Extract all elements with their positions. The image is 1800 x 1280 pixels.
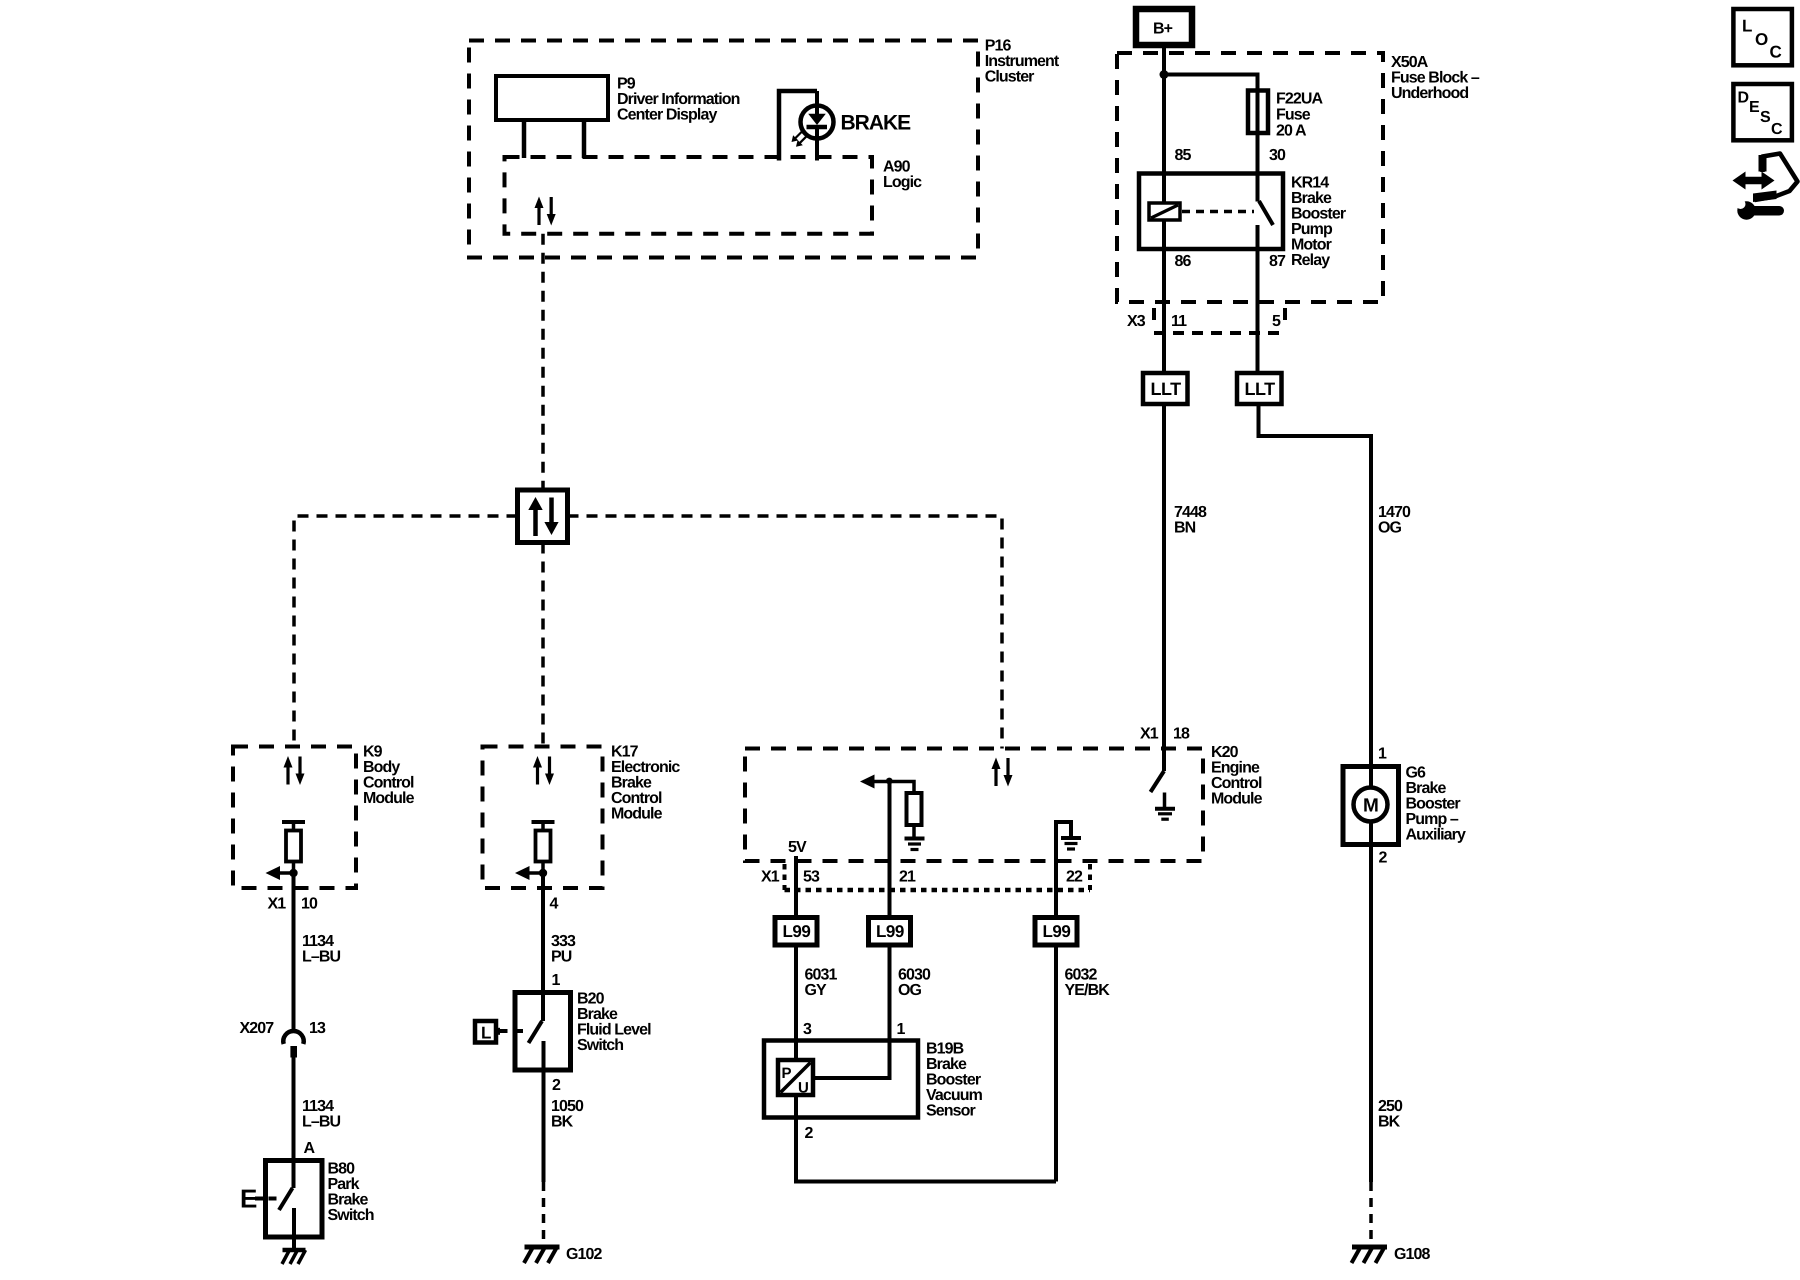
svg-text:Booster: Booster xyxy=(926,1072,981,1089)
fuse F22UA 20A xyxy=(1248,91,1268,134)
svg-text:P9: P9 xyxy=(617,75,636,92)
wire 250 BK xyxy=(1369,822,1373,1183)
svg-text:Underhood: Underhood xyxy=(1391,85,1468,102)
svg-text:Relay: Relay xyxy=(1291,252,1330,269)
motor M symbol xyxy=(1354,788,1388,822)
svg-text:Cluster: Cluster xyxy=(985,69,1034,86)
wire P9 left leg xyxy=(522,120,527,158)
svg-text:L: L xyxy=(1742,17,1752,36)
svg-text:10: 10 xyxy=(301,896,318,913)
serial data arrows K17 xyxy=(533,756,554,785)
svg-text:BN: BN xyxy=(1174,520,1196,537)
svg-text:B80: B80 xyxy=(328,1161,356,1178)
svg-text:2: 2 xyxy=(1379,850,1388,867)
svg-text:X207: X207 xyxy=(240,1020,275,1037)
svg-text:1050: 1050 xyxy=(551,1098,584,1115)
wire serial data A90 to gateway (dashed) xyxy=(541,234,545,490)
wire B+ to relay coil xyxy=(1162,45,1166,203)
splice L99 right xyxy=(1035,918,1077,946)
svg-text:Booster: Booster xyxy=(1291,206,1346,223)
svg-text:X1: X1 xyxy=(268,896,287,913)
LOC legend box xyxy=(1733,9,1792,65)
svg-text:Fuse Block –: Fuse Block – xyxy=(1391,70,1480,87)
svg-text:X3: X3 xyxy=(1127,313,1146,330)
svg-text:BRAKE: BRAKE xyxy=(841,112,912,135)
svg-text:O: O xyxy=(1755,30,1768,49)
connector X3 strip xyxy=(1152,308,1156,320)
svg-text:L: L xyxy=(481,1024,491,1043)
resistor pull-up xyxy=(907,793,922,825)
K20 internal switch to ground (pin 18) xyxy=(1151,771,1165,792)
svg-text:L–BU: L–BU xyxy=(302,1114,341,1131)
wire resistor to node xyxy=(541,862,545,874)
svg-text:18: 18 xyxy=(1173,726,1190,743)
wire 6030 OG xyxy=(813,945,890,1078)
svg-text:Module: Module xyxy=(1211,791,1263,808)
svg-text:Sensor: Sensor xyxy=(926,1103,976,1120)
svg-text:A: A xyxy=(304,1140,316,1157)
svg-text:20 A: 20 A xyxy=(1276,123,1307,140)
svg-text:X50A: X50A xyxy=(1391,54,1429,71)
svg-text:13: 13 xyxy=(309,1020,326,1037)
svg-text:87: 87 xyxy=(1269,253,1286,270)
svg-text:1470: 1470 xyxy=(1378,504,1411,521)
svg-text:Fluid Level: Fluid Level xyxy=(577,1022,651,1039)
svg-text:B19B: B19B xyxy=(926,1041,964,1058)
splice L99 left xyxy=(775,918,817,946)
serial data arrows K9 xyxy=(284,756,305,785)
svg-text:1134: 1134 xyxy=(302,1098,334,1115)
svg-text:6032: 6032 xyxy=(1065,967,1098,984)
svg-text:L–BU: L–BU xyxy=(302,949,341,966)
svg-text:22: 22 xyxy=(1066,869,1083,886)
splice L99 middle xyxy=(869,918,911,946)
svg-text:Fuse: Fuse xyxy=(1276,107,1311,124)
K17 input termination bar xyxy=(532,820,555,824)
svg-text:U: U xyxy=(798,1080,808,1097)
wire junction to fuse xyxy=(1164,75,1258,174)
node junction xyxy=(1160,70,1169,79)
svg-text:Pump –: Pump – xyxy=(1406,811,1459,828)
K9 input termination bar xyxy=(282,820,305,824)
svg-text:1: 1 xyxy=(897,1021,906,1038)
serial data arrows gateway xyxy=(528,497,558,536)
svg-text:Brake: Brake xyxy=(1406,780,1447,797)
wire dashed to G108 xyxy=(1369,1182,1373,1243)
wire 6031 GY xyxy=(794,945,798,1060)
svg-text:BK: BK xyxy=(551,1114,574,1131)
svg-text:X1: X1 xyxy=(761,869,780,886)
svg-text:30: 30 xyxy=(1269,147,1286,164)
svg-text:2: 2 xyxy=(805,1125,814,1142)
ground below B80 xyxy=(282,1250,306,1264)
svg-text:5: 5 xyxy=(1272,313,1281,330)
svg-text:Brake: Brake xyxy=(328,1192,369,1209)
K20 ground return pin 22 xyxy=(1056,822,1071,918)
serial data arrows A90 xyxy=(535,197,556,226)
svg-text:Module: Module xyxy=(611,806,663,823)
svg-text:5V: 5V xyxy=(788,839,807,856)
wire serial data gateway to K17 (dashed) xyxy=(541,543,545,747)
svg-text:A90: A90 xyxy=(883,159,911,176)
svg-text:X1: X1 xyxy=(1140,726,1159,743)
B80 switch contacts xyxy=(292,1161,296,1189)
svg-text:Booster: Booster xyxy=(1406,796,1461,813)
wire dashed to G102 xyxy=(542,1182,546,1243)
svg-text:Control: Control xyxy=(1211,775,1262,792)
instrument cluster P16 box xyxy=(469,41,978,258)
logic A90 box xyxy=(505,157,873,234)
svg-text:Switch: Switch xyxy=(577,1037,623,1054)
brake booster vacuum sensor B19B box xyxy=(764,1041,918,1118)
ground G102 xyxy=(524,1247,560,1263)
svg-text:F22UA: F22UA xyxy=(1276,91,1324,108)
svg-text:YE/BK: YE/BK xyxy=(1065,982,1111,999)
svg-text:L99: L99 xyxy=(783,922,811,941)
wire K9 pin 10 xyxy=(292,873,296,1032)
svg-text:GY: GY xyxy=(805,982,828,999)
svg-text:Logic: Logic xyxy=(883,174,922,191)
svg-text:Brake: Brake xyxy=(926,1056,967,1073)
wire sensor return to pin 22 xyxy=(796,1095,1056,1182)
wire 6032 YE/BK xyxy=(1054,945,1058,1182)
svg-text:M: M xyxy=(1363,796,1378,817)
wire K17 pin 4 to B20 xyxy=(541,873,545,1021)
svg-text:BK: BK xyxy=(1378,1114,1401,1131)
svg-text:Engine: Engine xyxy=(1211,760,1260,777)
park brake switch B80 box xyxy=(266,1161,323,1238)
svg-text:86: 86 xyxy=(1175,253,1192,270)
svg-text:333: 333 xyxy=(551,933,576,950)
svg-text:Brake: Brake xyxy=(577,1006,618,1023)
svg-text:C: C xyxy=(1770,43,1782,62)
K17 sense arrow xyxy=(528,871,544,875)
battery B+ xyxy=(1136,9,1192,45)
svg-text:1134: 1134 xyxy=(302,933,334,950)
signal ground under resistor xyxy=(905,825,925,850)
svg-text:21: 21 xyxy=(899,869,916,886)
connector X1 strip (dotted) xyxy=(783,864,787,890)
relay KR14 box xyxy=(1139,174,1283,250)
svg-text:Driver Information: Driver Information xyxy=(617,91,740,108)
serial data arrows K20 xyxy=(992,758,1013,787)
brake booster pump G6 box xyxy=(1343,767,1399,845)
B20 switch contacts xyxy=(529,1021,543,1043)
svg-text:Pump: Pump xyxy=(1291,221,1333,238)
relay coil xyxy=(1149,203,1180,220)
svg-text:Control: Control xyxy=(363,775,414,792)
svg-text:6030: 6030 xyxy=(898,967,931,984)
svg-text:250: 250 xyxy=(1378,1098,1403,1115)
svg-text:S: S xyxy=(1760,109,1771,126)
wire pin 21 xyxy=(888,782,892,918)
resistor in K17 xyxy=(536,831,551,862)
DESC legend box xyxy=(1733,84,1792,140)
resistor in K9 xyxy=(286,831,301,862)
svg-text:C: C xyxy=(1771,121,1783,138)
svg-text:E: E xyxy=(240,1184,257,1214)
svg-text:Brake: Brake xyxy=(1291,190,1332,207)
svg-text:G108: G108 xyxy=(1394,1246,1431,1263)
svg-text:Motor: Motor xyxy=(1291,237,1332,254)
svg-text:Control: Control xyxy=(611,790,662,807)
svg-text:Module: Module xyxy=(363,790,415,807)
wire serial data left branch to K9 (dashed) xyxy=(294,516,518,747)
svg-text:K9: K9 xyxy=(363,744,383,761)
svg-text:2: 2 xyxy=(552,1077,561,1094)
wire X207 to B80 xyxy=(292,1058,296,1161)
svg-text:Switch: Switch xyxy=(328,1207,374,1224)
inline connector X207 xyxy=(283,1031,303,1044)
wire resistor to node xyxy=(292,862,296,874)
node dot xyxy=(289,869,297,877)
svg-text:Body: Body xyxy=(363,759,400,776)
svg-text:L99: L99 xyxy=(876,922,904,941)
splice LLT left xyxy=(1143,373,1188,404)
svg-text:K20: K20 xyxy=(1211,744,1239,761)
svg-text:L99: L99 xyxy=(1043,922,1071,941)
svg-text:P: P xyxy=(782,1065,792,1082)
svg-text:Electronic: Electronic xyxy=(611,759,680,776)
svg-text:11: 11 xyxy=(1171,313,1187,330)
svg-text:Park: Park xyxy=(328,1176,360,1193)
electronic brake control module K17 box xyxy=(483,747,603,889)
svg-text:3: 3 xyxy=(803,1021,812,1038)
wire serial data right branch to K20 (dashed) xyxy=(568,516,1003,749)
relay switch contact 30-87 xyxy=(1256,133,1260,202)
svg-text:Center Display: Center Display xyxy=(617,106,717,123)
relay link dashed xyxy=(1182,210,1254,214)
svg-text:1: 1 xyxy=(552,972,561,989)
body control module K9 box xyxy=(233,747,356,889)
diagnostic link icon (double arrow, outline arrow, wrench) xyxy=(1733,154,1798,220)
ground G108 xyxy=(1352,1247,1388,1263)
svg-text:Auxiliary: Auxiliary xyxy=(1406,827,1466,844)
svg-text:Brake: Brake xyxy=(611,775,652,792)
splice LLT right xyxy=(1237,373,1282,404)
wire 1470 OG xyxy=(1259,404,1372,788)
svg-text:B20: B20 xyxy=(577,991,605,1008)
indicator lamp BRAKE (LED) xyxy=(792,91,834,161)
wire brake lamp loop xyxy=(779,91,817,161)
svg-text:LLT: LLT xyxy=(1151,379,1182,399)
svg-text:G102: G102 xyxy=(566,1246,603,1263)
svg-text:OG: OG xyxy=(1378,520,1402,537)
svg-text:53: 53 xyxy=(803,869,820,886)
svg-text:85: 85 xyxy=(1175,147,1192,164)
svg-text:7448: 7448 xyxy=(1174,504,1207,521)
fuse block X50A box xyxy=(1117,53,1383,302)
serial data gateway box xyxy=(518,490,568,543)
svg-text:D: D xyxy=(1738,90,1749,107)
svg-text:G6: G6 xyxy=(1406,765,1427,782)
svg-text:Instrument: Instrument xyxy=(985,53,1060,70)
svg-text:4: 4 xyxy=(550,896,559,913)
brake fluid level switch B20 box xyxy=(515,993,571,1071)
K20 pull-up and sense arrow pin 21 xyxy=(874,782,914,794)
wire 1050 BK xyxy=(542,1070,546,1182)
fluid level sensor L symbol xyxy=(475,1021,496,1043)
svg-text:K17: K17 xyxy=(611,744,639,761)
wire P9 right leg xyxy=(582,120,587,158)
K9 sense arrow xyxy=(278,871,294,875)
svg-text:E: E xyxy=(1749,99,1760,116)
svg-text:Vacuum: Vacuum xyxy=(926,1087,983,1104)
svg-text:LLT: LLT xyxy=(1245,379,1276,399)
svg-text:1: 1 xyxy=(1378,746,1387,763)
wire coil to LLT xyxy=(1162,220,1166,373)
svg-text:P16: P16 xyxy=(985,38,1012,55)
P/U transducer symbol xyxy=(778,1060,813,1095)
svg-text:OG: OG xyxy=(898,982,922,999)
svg-text:PU: PU xyxy=(551,949,572,966)
node dot xyxy=(539,869,547,877)
wire 7448 BN xyxy=(1162,404,1166,771)
svg-text:KR14: KR14 xyxy=(1291,175,1329,192)
engine control module K20 box xyxy=(745,749,1203,862)
svg-text:6031: 6031 xyxy=(805,967,838,984)
svg-text:B+: B+ xyxy=(1153,21,1173,38)
display P9 xyxy=(496,76,608,120)
